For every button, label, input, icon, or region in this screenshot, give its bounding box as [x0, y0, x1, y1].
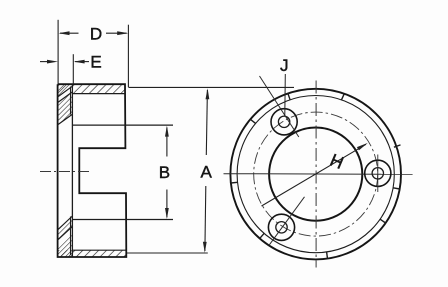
section view: flange lower hatched zone — [58, 216, 73, 257]
face view: bore circle — [269, 128, 362, 221]
svg-text:D: D — [90, 24, 102, 43]
face view: bolt hole right inner — [372, 168, 383, 179]
svg-text:H: H — [327, 150, 346, 173]
dimension B: label — [159, 163, 170, 182]
section view: flange bore chamfer upper — [58, 86, 73, 125]
dimension E: label — [90, 53, 101, 72]
face view: bolt hole top-left outer — [271, 109, 297, 135]
face view: bolt hole top-left radial centerline — [260, 76, 299, 137]
dimension D: dimension line with arrowheads — [59, 31, 129, 35]
face view: bolt hole bottom-left inner — [276, 222, 287, 233]
face view: bolt circle (dash-dot) — [254, 112, 378, 236]
face view: outer rim circle — [230, 89, 401, 260]
dimension D: left extension line — [57, 20, 59, 84]
section view: horizontal centerline — [40, 171, 92, 173]
dimension E: arrow at flange inner face — [74, 60, 89, 64]
face view: bolt hole bottom-left outer — [268, 214, 294, 240]
section view: top wall hatched band — [58, 84, 125, 93]
face view: vertical centerline — [315, 81, 317, 268]
face view: rim serration ticks — [231, 93, 401, 258]
face view: bolt hole right vertical centerline — [377, 155, 379, 193]
section view: bore top line (extends right as B extension) — [72, 124, 173, 126]
svg-text:E: E — [90, 53, 101, 72]
dimension H: radius line with arrowhead — [262, 143, 368, 206]
section view: flange inner face — [71, 84, 73, 257]
dimension D: right extension line — [127, 25, 129, 87]
dimension D: label — [90, 24, 102, 43]
dimension J: leader line — [284, 74, 287, 116]
svg-text:J: J — [280, 56, 289, 75]
svg-text:A: A — [201, 163, 213, 182]
section view: bore bottom line (extends right as B extension) — [72, 219, 173, 221]
section view: bottom wall hatched band — [58, 250, 126, 257]
dimension A: top extension line — [128, 86, 294, 88]
section view: flange upper hatched zone — [58, 84, 73, 125]
dimension E: outside arrow left — [40, 60, 58, 64]
dimension E: extension line — [72, 54, 74, 84]
section view: flange bore throat upper — [70, 87, 72, 115]
dimension A: label — [201, 163, 213, 182]
svg-text:B: B — [159, 163, 170, 182]
dimension A: bottom extension line — [127, 252, 208, 254]
face view: bolt hole top-left inner — [278, 116, 289, 127]
section view: counterbore top line — [72, 93, 125, 95]
section view: counterbore bottom line — [72, 249, 125, 251]
dimension B: dimension line with arrowheads — [165, 126, 169, 219]
face view: horizontal centerline — [224, 173, 413, 176]
dimension A: dimension line with arrowheads — [203, 88, 209, 253]
face view: bolt hole right outer — [365, 160, 391, 186]
section view: outer outline — [58, 84, 127, 257]
section view: flange bore throat lower — [70, 217, 72, 256]
face view: inner rim circle — [237, 96, 394, 253]
face view: bolt hole bottom-left radial centerline — [269, 197, 304, 245]
dimension J: label — [280, 56, 289, 75]
dimension H: rotated label — [327, 150, 346, 173]
section view: flange bore chamfer lower — [58, 216, 73, 240]
